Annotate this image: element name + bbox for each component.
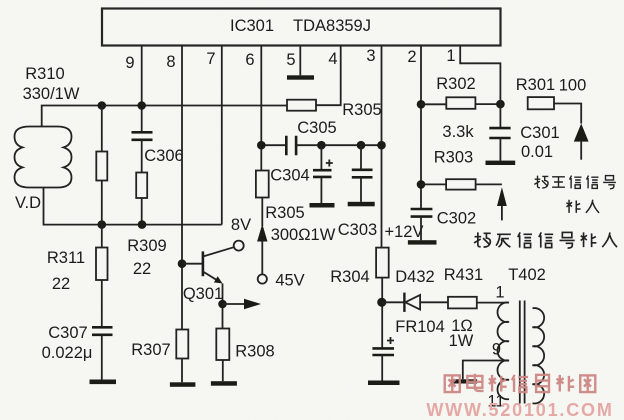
node R302 left (417, 100, 426, 109)
ground C303 (348, 202, 375, 207)
svg-text:7: 7 (206, 50, 215, 68)
node R303 left (417, 180, 426, 189)
capacitor C304 electrolytic (270, 145, 333, 184)
winding T402 primary (497, 302, 509, 399)
resistor R302 3.3k (421, 75, 476, 141)
svg-text:2: 2 (407, 48, 416, 66)
ground R308 (211, 381, 237, 386)
capacitor C301 (489, 104, 559, 161)
ground C307 (90, 380, 117, 385)
ground C301 (486, 161, 516, 165)
wire pin 7 down (221, 46, 223, 225)
svg-text:R303: R303 (434, 149, 473, 167)
wire R311 to C307 (101, 280, 103, 327)
capacitor C302 (411, 209, 477, 228)
svg-text:WWW.520101.COM: WWW.520101.COM (426, 400, 613, 420)
node bus2 C304 (317, 141, 326, 150)
svg-text:300Ω1W: 300Ω1W (271, 226, 336, 244)
svg-text:C306: C306 (144, 147, 183, 165)
node flyback junction (377, 298, 386, 307)
wire pin 8 down (181, 46, 183, 330)
capacitor electrolytic (below R304) (372, 337, 394, 355)
svg-text:0.01: 0.01 (521, 143, 553, 161)
wire R305 to 45V with arrow (257, 198, 267, 275)
svg-text:R309: R309 (127, 237, 166, 255)
label field negative signal input (CJK) (474, 232, 617, 248)
svg-text:R302: R302 (436, 75, 475, 93)
capacitor C307 (42, 324, 113, 362)
wire pin 9 (141, 46, 143, 133)
wire C301 to ground (499, 138, 501, 161)
wire pin 6 down (260, 46, 262, 171)
ground C302 (408, 240, 437, 244)
svg-text:C303: C303 (338, 221, 377, 239)
svg-text:R307: R307 (131, 341, 170, 359)
label field positive signal input (CJK) (534, 176, 616, 213)
svg-text:TDA8359J: TDA8359J (293, 17, 371, 35)
resistor R308 (216, 329, 274, 361)
svg-text:0.022μ: 0.022μ (42, 344, 93, 362)
resistor R307 (131, 330, 188, 360)
svg-text:FR104: FR104 (395, 318, 445, 336)
wire bus1 pin9 row to R305 (42, 106, 287, 127)
wire C306 to R309 (141, 140, 143, 173)
wire bus3 V.D to pin7 (44, 188, 222, 225)
ground T402 tap (451, 379, 477, 383)
svg-text:C301: C301 (520, 124, 559, 142)
ground flyback cap (368, 381, 400, 386)
ground R307 (170, 382, 196, 387)
wire pin 5 stub (299, 46, 301, 76)
svg-text:6: 6 (245, 51, 254, 69)
winding T402 secondary (533, 308, 545, 403)
resistor R311 (47, 225, 108, 293)
wire bus2 (261, 144, 381, 146)
node bus1-R310 junction (98, 101, 107, 110)
svg-text:R305: R305 (265, 204, 304, 222)
svg-text:9: 9 (125, 54, 134, 72)
svg-text:C304: C304 (270, 167, 309, 185)
resistor R310 (vertical, bus1 to bus3) (96, 106, 107, 225)
svg-text:8: 8 (166, 53, 175, 71)
core T402 (520, 301, 525, 404)
watermark red CJK (445, 374, 596, 392)
transistor Q301 (178, 247, 234, 303)
svg-text:C305: C305 (297, 119, 336, 137)
ground C304 (310, 203, 335, 208)
svg-text:3.3k: 3.3k (442, 123, 474, 141)
svg-text:R431: R431 (444, 266, 483, 284)
svg-text:C307: C307 (48, 324, 87, 342)
svg-text:330/1W: 330/1W (23, 85, 80, 103)
wire cap to ground (381, 355, 383, 381)
wire C307 to ground (101, 335, 103, 380)
wire R301 right with input arrow (554, 104, 589, 160)
svg-text:1: 1 (495, 284, 504, 302)
wire C303 to ground (360, 177, 362, 202)
svg-text:5: 5 (286, 51, 295, 69)
node bus2 C303 (357, 141, 366, 150)
label R310 value (23, 65, 80, 103)
transformer T402 (487, 266, 545, 411)
svg-text:45V: 45V (275, 272, 304, 290)
IC op-amp U IC301 TDA8359J box (102, 9, 501, 46)
svg-text:R310: R310 (25, 65, 64, 83)
wire R307 to ground (181, 359, 183, 383)
svg-text:100: 100 (559, 77, 587, 95)
node bus2 pin3 (377, 141, 386, 150)
svg-text:T402: T402 (508, 266, 546, 284)
svg-text:R311: R311 (47, 249, 85, 267)
capacitor C303 (338, 145, 377, 239)
wire R308 to ground (222, 360, 224, 381)
svg-text:R301: R301 (516, 76, 555, 94)
svg-text:1W: 1W (449, 332, 474, 350)
wire pin 1 (460, 46, 500, 105)
terminal 45V (258, 272, 305, 290)
wire R303 right with input arrow (476, 184, 507, 220)
capacitor C306 (132, 132, 184, 165)
node bus3 junction B (138, 220, 147, 229)
svg-text:8V: 8V (231, 216, 251, 234)
node bus2 pin6 (257, 141, 266, 150)
svg-text:R308: R308 (235, 343, 274, 361)
resistor R431 (444, 266, 483, 350)
wire D432 to R431 (420, 301, 448, 303)
wire C304 to ground (320, 177, 322, 203)
node bus1-pin9 junction (137, 101, 146, 110)
svg-text:V.D: V.D (15, 194, 41, 212)
resistor R303 (421, 149, 476, 190)
wire C302 to ground (420, 217, 422, 241)
svg-text:C302: C302 (437, 210, 476, 228)
svg-text:22: 22 (133, 260, 151, 278)
wire emitter down (222, 284, 224, 329)
wire pin 2 down (420, 46, 422, 210)
node emitter junction (218, 300, 227, 309)
svg-text:1: 1 (446, 47, 455, 65)
terminal 8V collector (231, 216, 251, 251)
wire R305 to pin 4 (316, 46, 341, 106)
svg-text:3: 3 (366, 47, 375, 65)
wire R302 to node (475, 103, 500, 105)
ground pin 5 (287, 75, 314, 79)
svg-text:R304: R304 (330, 268, 369, 286)
resistor R305 300ohm 1W (256, 171, 336, 245)
svg-text:D432: D432 (395, 268, 434, 286)
arrow emitter output (223, 299, 262, 309)
wire R431 to T402 (477, 302, 509, 304)
svg-text:R305: R305 (342, 101, 381, 119)
inductor V.D deflection yoke (15, 127, 72, 213)
resistor R304 (330, 248, 388, 286)
svg-text:+12V: +12V (385, 223, 424, 241)
svg-text:Q301: Q301 (183, 285, 223, 303)
wire pin 3 down (381, 46, 383, 248)
node R302 right (496, 100, 505, 109)
wire T402 tap pin 9 to ground (463, 361, 509, 380)
resistor R309 (127, 173, 166, 279)
resistor R305 (horizontal, near pin 4) (287, 100, 382, 119)
wire R304 to node (381, 278, 383, 349)
resistor R301 100 (516, 76, 586, 109)
svg-text:IC301: IC301 (230, 17, 274, 35)
wire R309 to bus3 (141, 198, 143, 225)
diode D432 FR104 (382, 268, 445, 336)
capacitor C305 (series) (286, 119, 336, 155)
svg-text:4: 4 (328, 50, 337, 68)
node bus3 junction A (98, 220, 107, 229)
svg-text:22: 22 (52, 275, 70, 293)
